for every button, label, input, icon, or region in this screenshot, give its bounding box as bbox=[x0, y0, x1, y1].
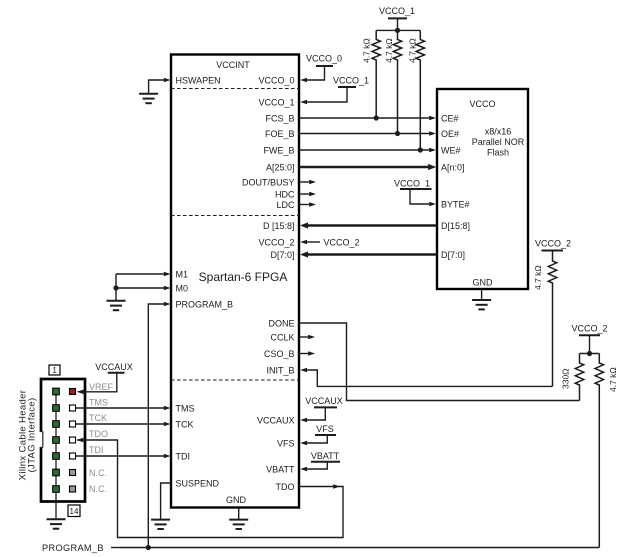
svg-text:Parallel NOR: Parallel NOR bbox=[472, 137, 525, 147]
wire VCCO_0 to FPGA bbox=[304, 66, 325, 80]
svg-text:FCS_B: FCS_B bbox=[265, 114, 294, 124]
svg-text:PROGRAM_B: PROGRAM_B bbox=[176, 300, 234, 310]
svg-text:A[25:0]: A[25:0] bbox=[266, 163, 295, 173]
wire DOUT/BUSY stub bbox=[299, 181, 310, 183]
power symbol VCCO_0 bbox=[306, 54, 342, 67]
power symbol VCCAUX (FPGA VCCAUX pin) bbox=[305, 396, 343, 407]
power symbol VCCO_1 (FPGA VCCO_1 pin) bbox=[333, 76, 369, 88]
svg-text:x8/x16: x8/x16 bbox=[485, 127, 512, 137]
svg-text:VREF: VREF bbox=[89, 382, 114, 392]
junction FOE_B/R2 bbox=[395, 131, 400, 136]
wire FPGA GND bbox=[238, 508, 240, 520]
svg-text:A[n:0]: A[n:0] bbox=[441, 163, 465, 173]
svg-text:D[7:0]: D[7:0] bbox=[270, 250, 294, 260]
svg-text:VCCO_1: VCCO_1 bbox=[394, 179, 430, 189]
svg-text:1: 1 bbox=[52, 366, 57, 375]
resistor R1 4.7 kOhm (FCS_B pull-up) bbox=[362, 30, 381, 117]
junction PROGRAM_B bbox=[146, 545, 151, 550]
svg-text:CCLK: CCLK bbox=[270, 333, 294, 343]
svg-text:FOE_B: FOE_B bbox=[265, 129, 295, 139]
flash memory U2 x8/x16 Parallel NOR Flash bbox=[437, 89, 528, 289]
svg-text:4.7 kΩ: 4.7 kΩ bbox=[384, 38, 394, 63]
wire M1 net bbox=[116, 273, 164, 275]
svg-text:VCCO_1: VCCO_1 bbox=[379, 6, 415, 16]
ground (M0/M1) bbox=[107, 301, 126, 310]
svg-text:TDO: TDO bbox=[89, 429, 108, 439]
svg-text:4.7 kΩ: 4.7 kΩ bbox=[533, 265, 543, 290]
wire HSWAPEN net bbox=[149, 80, 165, 94]
wire VFS to FPGA bbox=[304, 435, 327, 443]
J1 pin 1 number label bbox=[49, 365, 60, 375]
svg-text:TCK: TCK bbox=[176, 420, 194, 430]
svg-text:GND: GND bbox=[226, 495, 247, 505]
wire DONE net bbox=[299, 323, 580, 401]
wire FCS_B net bbox=[299, 117, 430, 119]
wire TCK net bbox=[75, 423, 164, 425]
svg-text:(JTAG Interface): (JTAG Interface) bbox=[27, 397, 38, 472]
ground (SUSPEND) bbox=[151, 520, 170, 529]
svg-text:WE#: WE# bbox=[441, 146, 461, 156]
svg-text:VFS: VFS bbox=[316, 424, 334, 434]
svg-text:D[7:0]: D[7:0] bbox=[441, 250, 465, 260]
wire SUSPEND net bbox=[161, 483, 171, 519]
svg-text:VCCO_2: VCCO_2 bbox=[324, 238, 360, 248]
svg-text:CSO_B: CSO_B bbox=[264, 349, 295, 359]
wire M1/M0 to ground bbox=[115, 274, 117, 301]
wire TMS net bbox=[75, 407, 164, 409]
svg-text:TDO: TDO bbox=[276, 482, 295, 492]
svg-text:14: 14 bbox=[70, 507, 79, 516]
power symbol VCCO_2 (DONE/PROGRAM_B pull-ups) bbox=[571, 324, 607, 336]
svg-text:VBATT: VBATT bbox=[311, 451, 340, 461]
svg-text:SUSPEND: SUSPEND bbox=[176, 479, 220, 489]
J1 side label Xilinx Cable Header (JTAG Interface) bbox=[18, 390, 38, 481]
power symbol VCCO_1 (top pull-up rail) bbox=[379, 6, 415, 30]
wire J1 ground column bbox=[55, 502, 57, 520]
resistor R5 330 Ohm (DONE pull-up) bbox=[561, 354, 584, 401]
svg-text:TDI: TDI bbox=[176, 452, 191, 462]
svg-text:TMS: TMS bbox=[176, 404, 195, 414]
wire TDO net bbox=[333, 484, 340, 489]
svg-text:BYTE#: BYTE# bbox=[441, 200, 470, 210]
resistor R6 4.7 kOhm (PROGRAM_B pull-up) bbox=[595, 354, 618, 548]
svg-text:VCCAUX: VCCAUX bbox=[257, 416, 295, 426]
wire VCCAUX to FPGA bbox=[304, 407, 325, 420]
wire BYTE# net bbox=[410, 189, 429, 204]
bus A[25:0] net bbox=[299, 166, 429, 169]
svg-text:VCCO_2: VCCO_2 bbox=[535, 239, 571, 249]
svg-text:INIT_B: INIT_B bbox=[266, 366, 294, 376]
svg-text:D [15:8]: D [15:8] bbox=[263, 221, 295, 231]
wire FWE_B net bbox=[299, 149, 430, 151]
svg-text:PROGRAM_B: PROGRAM_B bbox=[42, 543, 104, 553]
svg-text:VBATT: VBATT bbox=[266, 465, 295, 475]
junction FWE_B/R3 bbox=[418, 147, 423, 152]
power symbol VCCO_1 (BYTE# pull-up) bbox=[394, 179, 432, 190]
resistor R2 4.7 kOhm (FOE_B pull-up) bbox=[384, 30, 402, 133]
ground (J1) bbox=[47, 519, 66, 528]
svg-text:LDC: LDC bbox=[276, 200, 295, 210]
bus D[7:0] net bbox=[306, 253, 437, 256]
wire CCLK stub bbox=[299, 336, 309, 338]
svg-text:VFS: VFS bbox=[277, 439, 295, 449]
wire LDC stub bbox=[299, 204, 310, 206]
wire HDC stub bbox=[299, 193, 310, 195]
wire VCCO_1 to FPGA bbox=[304, 87, 347, 102]
power symbol VCCO_2 (INIT_B pull-up) bbox=[535, 239, 571, 251]
wire VCCO_2 net label (FPGA VCCO_2 pin) bbox=[304, 241, 320, 243]
power symbol VFS bbox=[315, 424, 336, 435]
svg-text:4.7 kΩ: 4.7 kΩ bbox=[608, 367, 618, 392]
wire PROGRAM_B to FPGA pin bbox=[148, 304, 164, 548]
svg-text:VCCO_2: VCCO_2 bbox=[258, 238, 294, 248]
svg-text:4.7 kΩ: 4.7 kΩ bbox=[362, 38, 372, 63]
svg-text:VCCO: VCCO bbox=[469, 99, 495, 109]
svg-text:VCCAUX: VCCAUX bbox=[95, 362, 133, 372]
wire VBATT to FPGA bbox=[304, 462, 327, 469]
junction VCCO_2 rail bbox=[587, 351, 592, 356]
power symbol VCCAUX (VREF) bbox=[95, 362, 133, 373]
resistor R3 4.7 kOhm (FWE_B pull-up) bbox=[408, 30, 425, 149]
junction FCS_B/R1 bbox=[374, 115, 379, 120]
junction M0/ground wire bbox=[113, 285, 118, 290]
bus D[15:8] net bbox=[306, 224, 437, 227]
wire PROGRAM_B bottom net bbox=[120, 547, 599, 549]
connector J1 Xilinx Cable Header (JTAG) bbox=[39, 379, 85, 502]
wire flash GND bbox=[481, 289, 483, 300]
svg-text:TMS: TMS bbox=[89, 398, 108, 408]
svg-text:Spartan-6 FPGA: Spartan-6 FPGA bbox=[199, 270, 288, 284]
svg-text:HDC: HDC bbox=[275, 190, 295, 200]
wire pull-up pair rail bbox=[580, 353, 600, 355]
svg-text:CE#: CE# bbox=[441, 114, 459, 124]
svg-text:VCCO_0: VCCO_0 bbox=[306, 54, 342, 64]
svg-text:330Ω: 330Ω bbox=[561, 368, 571, 389]
svg-text:TDI: TDI bbox=[89, 445, 104, 455]
svg-text:GND: GND bbox=[473, 278, 494, 288]
svg-text:DOUT/BUSY: DOUT/BUSY bbox=[242, 178, 295, 188]
svg-text:D[15:8]: D[15:8] bbox=[441, 221, 470, 231]
svg-text:TCK: TCK bbox=[89, 413, 107, 423]
power symbol VBATT bbox=[311, 451, 340, 462]
wire FOE_B net bbox=[299, 133, 430, 135]
svg-text:M1: M1 bbox=[176, 270, 189, 280]
svg-text:HSWAPEN: HSWAPEN bbox=[176, 76, 221, 86]
svg-text:Flash: Flash bbox=[487, 148, 509, 158]
junction rail/VCCO_1 bbox=[395, 28, 400, 33]
svg-text:VCCINT: VCCINT bbox=[216, 60, 250, 70]
svg-text:DONE: DONE bbox=[268, 319, 294, 329]
wire TDI net bbox=[75, 455, 164, 457]
svg-text:VCCO_0: VCCO_0 bbox=[258, 76, 294, 86]
svg-text:N.C.: N.C. bbox=[89, 468, 107, 478]
svg-text:M0: M0 bbox=[176, 284, 189, 294]
svg-text:FWE_B: FWE_B bbox=[263, 146, 294, 156]
wire M0 net bbox=[116, 287, 164, 289]
ground (flash GND) bbox=[472, 300, 491, 309]
resistor R4 4.7 kOhm (INIT_B pull-up) bbox=[533, 251, 557, 387]
J1 pin 14 number label bbox=[68, 505, 80, 517]
wire INIT_B net bbox=[300, 368, 307, 373]
wire VREF net bbox=[78, 373, 117, 392]
FPGA U1 Spartan-6 FPGA bbox=[171, 55, 299, 508]
wire VCCO_2 stub bbox=[589, 335, 591, 353]
wire CSO_B stub bbox=[299, 353, 309, 355]
wire pull-up rail bbox=[376, 29, 420, 31]
svg-text:VCCAUX: VCCAUX bbox=[305, 396, 343, 406]
svg-text:VCCO_1: VCCO_1 bbox=[258, 98, 294, 108]
ground (FPGA GND) bbox=[229, 520, 248, 529]
svg-text:OE#: OE# bbox=[441, 129, 459, 139]
svg-text:VCCO_1: VCCO_1 bbox=[333, 76, 369, 86]
svg-text:VCCO_2: VCCO_2 bbox=[571, 324, 607, 334]
svg-text:N.C.: N.C. bbox=[89, 484, 107, 494]
ground (HSWAPEN) bbox=[139, 94, 158, 103]
svg-text:4.7 kΩ: 4.7 kΩ bbox=[408, 38, 418, 63]
